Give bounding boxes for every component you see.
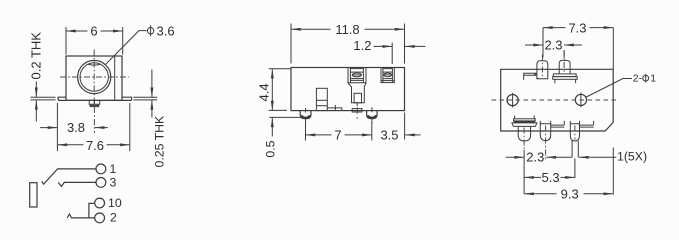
bottom middle pin centerline: [545, 126, 547, 160]
pin centerline below: [93, 107, 95, 133]
pin 1 circle: [96, 164, 106, 174]
terminal T1 outer: [348, 68, 366, 103]
svg-text:3.5: 3.5: [380, 128, 398, 143]
svg-text:10: 10: [108, 196, 122, 210]
right flange tab: [122, 97, 132, 100]
branch wire to pin 10: [89, 203, 95, 218]
label phi 3.6: [147, 24, 174, 39]
terminal T1 contact eye: [352, 73, 361, 77]
right tail bar: [580, 121, 594, 127]
jack hole outer circle: [78, 60, 111, 93]
jack hole inner circle: [80, 63, 108, 91]
horizontal centerline: [60, 76, 129, 78]
dimension 6: [66, 24, 123, 55]
label 2-phi1: [633, 73, 656, 85]
bottom middle pin: [540, 121, 550, 141]
body outline: [291, 68, 405, 111]
dimension 7: [306, 121, 372, 143]
switch contact wire pin 1: [42, 169, 96, 184]
body outline: [66, 56, 122, 100]
svg-text:3.8: 3.8: [67, 120, 85, 135]
svg-text:0.5: 0.5: [263, 140, 277, 157]
bottom left terminal flange: [512, 116, 537, 127]
svg-text:1.2: 1.2: [353, 38, 371, 53]
svg-text:1: 1: [110, 162, 117, 176]
svg-text:2: 2: [110, 211, 117, 225]
dimension 4.4: [256, 69, 291, 111]
contact wire pin 2: [67, 214, 95, 218]
terminal T1 pin stub: [352, 109, 362, 112]
dimension 7.6: [57, 103, 129, 153]
pin 3 circle: [96, 178, 106, 188]
right pin width extension lines: [572, 141, 578, 158]
bottom left pin: [518, 126, 530, 141]
left SMD foot: [300, 108, 311, 123]
svg-text:5.3: 5.3: [542, 170, 560, 185]
svg-text:7.6: 7.6: [86, 138, 104, 153]
base bottom line: [58, 99, 131, 101]
dimension 2.3 bottom: [506, 149, 572, 164]
contact chord at top of hole: [88, 64, 101, 65]
dimension 9.3: [524, 148, 613, 202]
svg-text:2.3: 2.3: [544, 38, 562, 53]
svg-text:11.8: 11.8: [335, 22, 359, 37]
right pin centerline extension: [574, 159, 576, 179]
pin 2 circle: [95, 213, 105, 223]
terminal T2 inner lines: [381, 68, 394, 83]
dimension 5.3: [524, 170, 575, 185]
leader 2-phi1: [585, 79, 632, 98]
svg-text:3.6: 3.6: [157, 24, 175, 39]
terminal T2 contact eye: [384, 73, 392, 77]
dimension 1.2: [353, 38, 425, 64]
svg-text:2.3: 2.3: [526, 149, 544, 164]
terminal T1 tube slot: [354, 93, 361, 103]
top pin P2: [553, 60, 578, 83]
dimension 3.5: [380, 113, 420, 143]
svg-text:6: 6: [90, 24, 97, 39]
pin 10 circle: [95, 198, 105, 208]
contact wire pin 3: [58, 182, 96, 186]
plug sleeve rectangle: [30, 183, 37, 207]
pin P1 centerline: [541, 55, 543, 78]
left flange tab: [58, 97, 66, 100]
svg-text:0.2 THK: 0.2 THK: [29, 32, 44, 80]
top pin P1: [537, 61, 548, 79]
svg-text:7: 7: [334, 128, 341, 143]
dimension 3.8: [40, 120, 108, 135]
dimension 11.8: [291, 22, 405, 64]
terminal T1 inner lines: [348, 68, 366, 84]
horizontal centerline: [492, 99, 617, 101]
svg-text:0.25 THK: 0.25 THK: [153, 115, 167, 168]
svg-text:2-: 2-: [633, 73, 643, 85]
mounting hole left: [507, 93, 518, 108]
body outline with chamfer: [501, 69, 614, 131]
dimension 0.25 THK arrows: [133, 70, 157, 118]
internal stepped block: [316, 88, 327, 110]
bottom left pin centerline: [523, 128, 525, 151]
middle tail bar: [551, 121, 565, 127]
stub centerline: [356, 103, 358, 119]
dimension 0.5: [263, 117, 302, 157]
dimension 7.3: [543, 20, 613, 69]
center pin below base: [89, 100, 100, 106]
mounting hole right: [575, 93, 586, 108]
svg-text:4.4: 4.4: [256, 83, 271, 101]
svg-text:9.3: 9.3: [561, 186, 579, 201]
svg-text:1(5X): 1(5X): [617, 149, 647, 163]
bottom right pin: [570, 121, 579, 141]
flat contact tail: [327, 105, 342, 111]
dimension 0.2 arrows: [31, 82, 56, 122]
pin P2 centerline: [563, 50, 565, 74]
vertical centerline: [93, 50, 95, 105]
svg-text:3: 3: [110, 176, 117, 190]
dimension 2.3 top: [525, 38, 582, 58]
svg-text:7.3: 7.3: [568, 20, 586, 35]
leader line phi3.6: [105, 31, 146, 65]
terminal T2 outer: [381, 68, 394, 83]
dimension 1(5X): [579, 149, 647, 163]
svg-text:1: 1: [650, 73, 656, 85]
pin P1 side bracket: [524, 73, 541, 80]
right SMD foot: [367, 107, 378, 123]
